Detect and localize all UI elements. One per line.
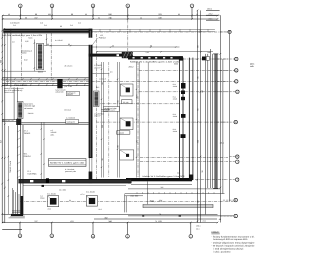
svg-text:90: 90 [69,199,71,202]
svg-text:36: 36 [85,13,87,16]
svg-text:20.5 m²: 20.5 m² [94,66,100,69]
svg-text:i stal zbrojeniową ułożyć: i stal zbrojeniową ułożyć [213,247,244,250]
svg-text:24.1 302: 24.1 302 [131,195,140,198]
svg-text:POKÓJ: POKÓJ [24,155,31,158]
svg-text:2,05: 2,05 [146,51,150,54]
svg-text:Meble W 1.5xDaflex gam 1.5m 30: Meble W 1.5xDaflex gam 1.5m 302 [143,175,185,178]
svg-text:strop gęstożebr.: strop gęstożebr. [16,84,29,87]
svg-text:90: 90 [68,43,70,46]
svg-text:stopa: stopa [40,196,44,199]
svg-text:TARAS 21x14: TARAS 21x14 [9,161,12,173]
svg-text:n-2 240x26: n-2 240x26 [66,116,75,119]
svg-text:302: 302 [48,13,51,16]
svg-text:KUCHNIA: KUCHNIA [28,172,38,175]
svg-text:90x26: 90x26 [38,70,43,73]
svg-text:O-2: O-2 [70,24,73,27]
svg-text:O-2: O-2 [78,21,81,24]
svg-text:żelbet B20: żelbet B20 [56,91,64,94]
svg-text:150.1: 150.1 [196,224,201,227]
svg-text:74: 74 [155,220,157,223]
svg-text:24.1: 24.1 [48,208,52,211]
svg-text:H: H [236,156,238,159]
svg-text:12: 12 [196,13,198,16]
svg-text:- Ściany fundamentowe murowane: - Ściany fundamentowe murowane z bl. [211,235,254,238]
svg-text:302: 302 [0,59,3,63]
svg-text:24.1: 24.1 [177,172,180,175]
svg-text:betonowych B20 na zaprawie M15: betonowych B20 na zaprawie M15 [213,238,248,241]
svg-text:i ułoż. poziomo: i ułoż. poziomo [213,250,231,253]
svg-text:50x50: 50x50 [22,52,27,55]
svg-text:D2 140: D2 140 [123,101,129,104]
svg-text:2.0: 2.0 [12,41,15,44]
svg-text:88: 88 [150,44,152,47]
svg-text:St-2: St-2 [99,208,102,211]
svg-text:90: 90 [60,25,62,28]
svg-text:nadciąg 24: nadciąg 24 [67,120,75,123]
svg-text:240x24 co 60: 240x24 co 60 [4,91,14,94]
svg-text:St-1 40x40: St-1 40x40 [86,191,95,194]
svg-text:96: 96 [178,13,180,16]
svg-text:517: 517 [0,139,3,143]
svg-text:240x24: 240x24 [67,93,73,96]
svg-text:Meble W 1.5xDaflex gam 1.5m 2,: Meble W 1.5xDaflex gam 1.5m 2,05 [130,60,180,63]
svg-text:+17.4: +17.4 [80,193,84,196]
svg-text:0.02: 0.02 [24,59,28,62]
svg-text:24: 24 [140,16,142,19]
svg-text:gazowa 4-paln: gazowa 4-paln [65,170,76,173]
svg-text:301: 301 [159,200,164,203]
svg-text:C: C [235,58,237,61]
svg-text:W2 12x2: W2 12x2 [64,109,71,112]
svg-text:W-2: W-2 [96,86,99,89]
svg-text:TARAS: TARAS [24,132,31,135]
svg-text:240x24: 240x24 [28,112,34,115]
svg-text:5x0,26e rozkład płyt, poz 1,5m: 5x0,26e rozkład płyt, poz 1,5m +2% [2,34,42,37]
svg-text:żelb.: żelb. [250,65,255,68]
svg-text:302: 302 [161,186,164,189]
svg-text:POKÓJ: POKÓJ [99,36,106,39]
svg-text:Meble W-1 Daflex gam 150: Meble W-1 Daflex gam 150 [50,162,85,165]
svg-text:140x26: 140x26 [119,132,125,135]
svg-text:d-5: d-5 [110,71,113,74]
svg-text:8000: 8000 [174,62,178,65]
svg-text:d-4 15x15: d-4 15x15 [55,39,63,42]
svg-text:24.1 302: 24.1 302 [59,189,66,192]
svg-text:36: 36 [112,44,114,47]
svg-text:O-1: O-1 [13,24,16,27]
svg-text:St-1 40x40: St-1 40x40 [47,193,56,196]
svg-text:d5 1.5x2.6: d5 1.5x2.6 [64,64,72,67]
svg-text:24.1: 24.1 [203,220,207,223]
svg-text:poz +2.80: poz +2.80 [64,85,72,88]
svg-text:52: 52 [98,16,100,19]
svg-text:24.1: 24.1 [196,228,200,231]
svg-text:żelb.: żelb. [51,133,55,136]
svg-text:- W ławach i stopach umieścić: - W ławach i stopach umieścić zbrojenie [211,245,255,248]
svg-text:90: 90 [47,43,49,46]
svg-text:do komina: do komina [24,107,32,110]
svg-text:302,: 302, [150,200,155,203]
svg-text:z 2.6x1.5: z 2.6x1.5 [99,78,106,81]
svg-text:15.2 m²: 15.2 m² [94,115,100,118]
svg-text:40: 40 [8,13,10,16]
svg-text:O-3: O-3 [40,21,43,24]
svg-text:88: 88 [25,16,27,19]
svg-text:2,05: 2,05 [25,40,29,43]
svg-text:G: G [235,121,237,124]
svg-text:D: D [235,69,237,72]
svg-text:O-1: O-1 [44,24,47,27]
svg-text:- Izolacja wilgociowa: masy dy: - Izolacja wilgociowa: masy dyspersyjne [211,242,255,245]
svg-text:200.2: 200.2 [129,65,135,68]
svg-text:150.1: 150.1 [207,8,213,11]
